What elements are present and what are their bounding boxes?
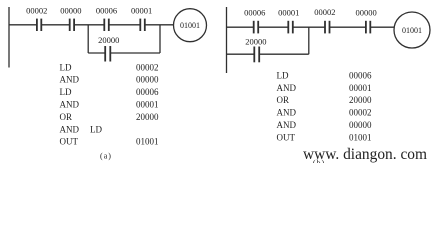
- coil 01001 (b): [394, 12, 430, 48]
- branch bottom wire left (a): [88, 52, 105, 54]
- svg-text:AND: AND: [60, 124, 80, 134]
- contact 00000 (a): [70, 19, 74, 31]
- wire rung segment b3: [293, 26, 325, 28]
- svg-text:00006: 00006: [136, 87, 159, 97]
- svg-text:01001: 01001: [180, 21, 200, 30]
- wire rung segment a2: [41, 24, 69, 26]
- svg-text:00001: 00001: [131, 5, 152, 15]
- contact 00002 (a): [37, 19, 41, 31]
- contact 00001 (b): [288, 21, 293, 34]
- contact 00001 (a): [140, 19, 145, 31]
- svg-text:20000: 20000: [136, 112, 159, 122]
- svg-text:01001: 01001: [402, 26, 422, 35]
- svg-text:00001: 00001: [136, 100, 159, 110]
- svg-text:01001: 01001: [349, 132, 372, 142]
- branch right vertical wire (b): [308, 27, 310, 54]
- svg-text:00002: 00002: [314, 7, 335, 17]
- svg-text:OUT: OUT: [277, 132, 296, 142]
- branch bottom wire right (b): [259, 53, 309, 55]
- svg-text:AND: AND: [60, 100, 80, 110]
- svg-text:LD: LD: [60, 62, 72, 72]
- contact 00002 (b): [325, 21, 330, 34]
- svg-text:AND: AND: [277, 120, 297, 130]
- svg-text:00002: 00002: [136, 62, 159, 72]
- svg-text:OUT: OUT: [60, 137, 79, 147]
- left power rail (a): [8, 7, 10, 68]
- contact 00006 (b): [254, 21, 259, 34]
- wire rung segment b1: [227, 26, 254, 28]
- svg-text:00000: 00000: [355, 8, 376, 18]
- svg-text:AND: AND: [277, 83, 297, 93]
- wire rung segment a1: [9, 24, 37, 26]
- wire rung segment a4: [109, 24, 141, 26]
- wire rung segment b4: [330, 26, 366, 28]
- svg-text:00000: 00000: [349, 120, 372, 130]
- svg-text:01001: 01001: [136, 137, 159, 147]
- left power rail (b): [226, 7, 228, 73]
- svg-text:00002: 00002: [349, 108, 372, 118]
- branch bottom wire left (b): [227, 53, 255, 55]
- svg-text:AND: AND: [277, 108, 297, 118]
- coil 01001 (a): [174, 9, 207, 42]
- svg-text:20000: 20000: [245, 36, 266, 46]
- contact 00006 (a): [104, 19, 109, 31]
- branch right vertical wire (a): [159, 25, 161, 53]
- instruction list (b): [277, 70, 373, 167]
- wire rung segment b5 to coil: [370, 26, 394, 28]
- wire rung segment b2: [258, 26, 288, 28]
- instruction list (a): [60, 62, 160, 160]
- svg-text:00006: 00006: [244, 8, 265, 18]
- branch left vertical wire (a): [87, 25, 89, 53]
- svg-text:OR: OR: [60, 112, 73, 122]
- contact 20000 (a): [105, 46, 110, 62]
- svg-text:00006: 00006: [349, 70, 372, 80]
- svg-text:OR: OR: [277, 95, 290, 105]
- svg-text:www. diangon. com: www. diangon. com: [303, 146, 427, 163]
- svg-text:LD: LD: [90, 124, 102, 134]
- svg-text:00000: 00000: [136, 75, 159, 85]
- wire rung segment a5 to coil: [145, 24, 174, 26]
- svg-text:00002: 00002: [26, 5, 47, 15]
- svg-text:(a): (a): [100, 152, 112, 161]
- contact 00000 (b): [366, 21, 370, 34]
- contact 20000 (b): [254, 47, 259, 63]
- svg-text:LD: LD: [60, 87, 72, 97]
- svg-text:20000: 20000: [349, 95, 372, 105]
- svg-text:00006: 00006: [96, 5, 117, 15]
- svg-text:00001: 00001: [278, 7, 299, 17]
- svg-text:00001: 00001: [349, 83, 372, 93]
- branch bottom wire right (a): [110, 52, 160, 54]
- svg-text:LD: LD: [277, 70, 289, 80]
- svg-text:00000: 00000: [60, 5, 81, 15]
- wire rung segment a3: [74, 24, 104, 26]
- svg-text:20000: 20000: [98, 35, 119, 45]
- svg-text:AND: AND: [60, 75, 80, 85]
